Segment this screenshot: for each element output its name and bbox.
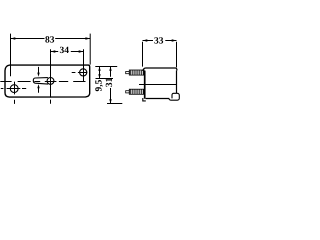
svg-text:9,5: 9,5	[94, 79, 104, 91]
svg-text:83: 83	[45, 36, 55, 46]
svg-text:31: 31	[105, 77, 115, 87]
svg-text:33: 33	[154, 36, 164, 46]
svg-text:34: 34	[60, 46, 70, 56]
